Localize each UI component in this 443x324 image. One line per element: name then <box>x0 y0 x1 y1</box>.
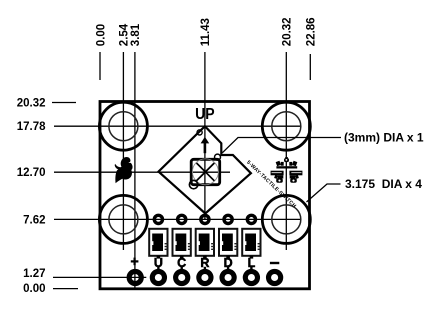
switch body diamond outline with corner notch <box>159 126 251 213</box>
dimension line 7.62 (horizontal through bottom holes and vias) <box>54 218 301 220</box>
svg-text:0.00: 0.00 <box>95 24 107 46</box>
via C <box>178 215 186 223</box>
pad minus <box>269 271 281 283</box>
mounting hole top-right drill <box>272 112 301 141</box>
dimension line 0.00 (left bottom tick) <box>53 288 78 290</box>
via R <box>201 215 209 223</box>
drill X mark <box>197 163 215 181</box>
svg-text:1.27: 1.27 <box>23 268 45 280</box>
pad + <box>129 271 141 283</box>
svg-text:11.43: 11.43 <box>200 18 212 46</box>
board outline <box>100 102 310 289</box>
resistor R4 <box>219 229 237 259</box>
UP arrow head <box>201 137 210 144</box>
dimension extension line 0.00 (top tick) <box>99 52 101 80</box>
resistor R2 <box>173 229 191 259</box>
mounting hole bottom-right drill <box>272 205 301 234</box>
svg-text:(3mm) DIA x 1: (3mm) DIA x 1 <box>344 131 424 145</box>
pad L <box>245 271 257 283</box>
mounting hole top-right outer <box>262 102 310 150</box>
svg-text:20.32: 20.32 <box>282 17 294 46</box>
svg-text:22.86: 22.86 <box>306 17 318 46</box>
mounting hole top-left drill <box>109 112 138 141</box>
pad C <box>176 271 188 283</box>
via D <box>224 215 232 223</box>
pad label + <box>131 258 139 266</box>
resistor R5 <box>242 229 260 259</box>
UP arrow shaft <box>204 143 207 153</box>
dimension line 17.78 (horizontal through top holes) <box>54 125 301 127</box>
via U <box>154 215 162 223</box>
mounting hole bottom-left outer <box>99 195 147 243</box>
leader line for (3mm) DIA x 1 <box>222 138 341 153</box>
dimension extension line 20.32 (vertical through right holes) <box>285 52 287 250</box>
svg-text:17.78: 17.78 <box>17 121 46 133</box>
svg-text:12.70: 12.70 <box>17 167 46 179</box>
pad D <box>222 271 234 283</box>
leader line for 3.175 DIA x 4 <box>307 184 341 202</box>
dimension extension line 3.81 (vertical through + pad) <box>134 52 136 289</box>
switch center hole circle <box>192 159 218 185</box>
svg-text:3.81: 3.81 <box>130 23 142 46</box>
svg-text:20.32: 20.32 <box>17 98 46 110</box>
dimension extension line 11.43 (vertical centerline) <box>204 52 206 219</box>
dimension line 12.70 (horizontal through switch center) <box>54 171 230 173</box>
dimension extension line 22.86 (top tick) <box>309 54 311 80</box>
pad label minus <box>270 262 279 264</box>
svg-text:3.175 DIA x 4: 3.175 DIA x 4 <box>345 177 422 191</box>
locating peg circle square bottom-left <box>189 180 197 188</box>
mounting hole bottom-right outer <box>262 195 310 243</box>
locating peg circle square top-right <box>215 154 221 160</box>
SparkFun flame logo <box>115 157 133 183</box>
manufacturer bug logo <box>271 157 303 183</box>
mounting hole bottom-left drill <box>109 205 138 234</box>
pad R <box>199 271 211 283</box>
svg-text:7.62: 7.62 <box>23 214 45 226</box>
switch button square <box>191 159 220 184</box>
pad U <box>152 271 164 283</box>
svg-text:2.54: 2.54 <box>119 23 131 46</box>
dimension line 20.32 (left tick) <box>52 102 76 104</box>
locating peg circle near top vertex <box>197 130 202 135</box>
mounting hole top-left outer <box>99 102 147 150</box>
svg-text:UP: UP <box>195 106 215 123</box>
resistor R1 <box>149 229 167 259</box>
svg-text:0.00: 0.00 <box>23 283 45 295</box>
dimension line 1.27 (horizontal through pads) <box>53 276 146 278</box>
traces from labels to pads <box>157 267 159 270</box>
dimension extension line 2.54 (vertical through left holes) <box>122 52 124 250</box>
via L <box>247 215 255 223</box>
resistor R3 <box>196 229 214 259</box>
